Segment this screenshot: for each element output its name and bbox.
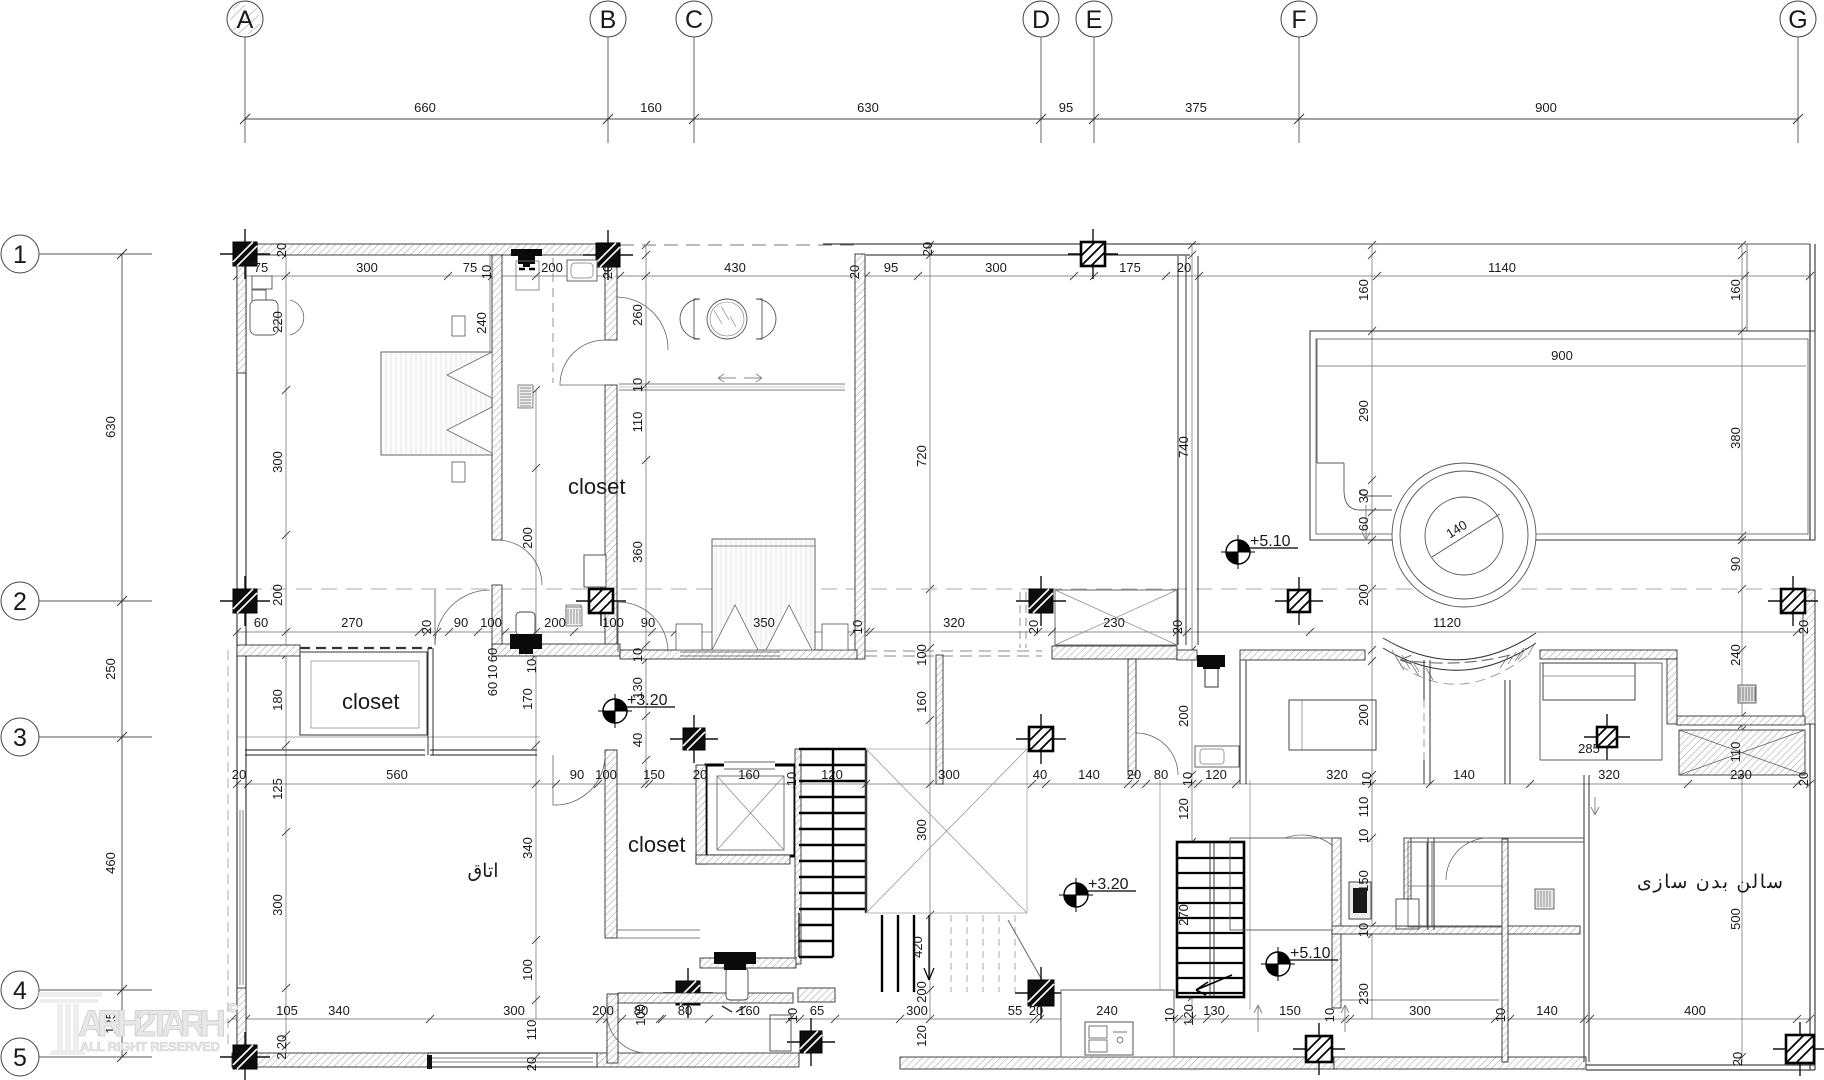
svg-text:300: 300 — [914, 819, 929, 841]
svg-text:130: 130 — [1203, 1003, 1225, 1018]
sink top hall — [567, 260, 597, 281]
gym radiator — [1535, 889, 1554, 909]
svg-text:350: 350 — [753, 615, 775, 630]
svg-text:10: 10 — [485, 665, 500, 679]
stair1 420 arrow — [928, 915, 930, 980]
svg-text:320: 320 — [1598, 767, 1620, 782]
svg-text:150: 150 — [643, 767, 665, 782]
gym top wall right horizontal — [1677, 716, 1805, 725]
closet2 room — [300, 652, 427, 735]
svg-text:120: 120 — [1205, 767, 1227, 782]
svg-text:20: 20 — [1170, 620, 1185, 634]
svg-text:اتاق: اتاق — [467, 861, 498, 882]
svg-text:175: 175 — [1119, 260, 1141, 275]
svg-text:420: 420 — [910, 936, 925, 958]
wc2 wall x1336 — [1332, 838, 1341, 1008]
column B2 — [576, 576, 626, 626]
svg-text:300: 300 — [906, 1003, 928, 1018]
svg-text:460: 460 — [103, 852, 118, 874]
svg-text:80: 80 — [634, 1003, 648, 1018]
elevation marker +5.10 b — [1261, 945, 1338, 981]
svg-text:4: 4 — [13, 977, 27, 1005]
svg-text:10: 10 — [785, 1008, 800, 1022]
svg-text:300: 300 — [270, 451, 285, 473]
wall y750 row3 — [245, 749, 425, 751]
svg-text:20: 20 — [524, 1057, 539, 1071]
svg-text:140: 140 — [1536, 1003, 1558, 1018]
svg-text:220: 220 — [270, 311, 285, 333]
svg-text:F: F — [1291, 6, 1306, 34]
wc top wall right — [1240, 650, 1365, 660]
left wall bottom hatch — [237, 988, 246, 1046]
svg-text:30: 30 — [1356, 489, 1371, 503]
stair1 flight — [799, 749, 866, 957]
svg-text:C: C — [685, 6, 703, 34]
massage bed1 — [1289, 700, 1376, 750]
svg-text:60: 60 — [485, 682, 500, 696]
column B4 — [663, 968, 713, 1018]
svg-text:340: 340 — [520, 837, 535, 859]
shaft bottom wall — [1052, 646, 1177, 659]
svg-text:290: 290 — [1356, 400, 1371, 422]
svg-text:560: 560 — [386, 767, 408, 782]
wall divider x1747 — [1746, 244, 1748, 331]
svg-text:100: 100 — [602, 615, 624, 630]
grid bubble B — [590, 1, 626, 143]
door in bottom wall — [770, 1015, 791, 1051]
svg-text:160: 160 — [738, 767, 760, 782]
svg-text:10: 10 — [850, 620, 865, 634]
svg-text:90: 90 — [641, 615, 655, 630]
svg-text:ALL RIGHT RESERVED: ALL RIGHT RESERVED — [80, 1039, 220, 1054]
svg-text:300: 300 — [938, 767, 960, 782]
gym rooms top wall — [1408, 837, 1584, 839]
svg-text:200: 200 — [544, 615, 566, 630]
door wc mid — [1136, 733, 1178, 775]
svg-text:170: 170 — [520, 688, 535, 710]
svg-text:5: 5 — [13, 1044, 27, 1072]
radiator closet1 — [518, 385, 533, 408]
double door bedroom1 — [435, 590, 490, 645]
svg-text:20: 20 — [693, 767, 707, 782]
svg-text:10: 10 — [1493, 1008, 1508, 1022]
landing wall below stair — [798, 988, 835, 1002]
row bubble 2 — [1, 582, 152, 620]
bed2 room window — [680, 651, 780, 653]
svg-text:E: E — [1086, 6, 1103, 34]
row bubble 5 — [1, 1038, 152, 1076]
spa outer circle — [1392, 463, 1536, 607]
wc bottom toilet — [714, 952, 756, 1012]
down arrow gym — [1591, 797, 1599, 815]
svg-text:60: 60 — [254, 615, 268, 630]
stair2 side lines — [1159, 780, 1161, 1010]
stair1 void X — [866, 749, 1027, 913]
svg-text:1: 1 — [13, 241, 27, 269]
svg-text:380: 380 — [1728, 427, 1743, 449]
svg-text:D: D — [1032, 6, 1050, 34]
svg-text:60: 60 — [1356, 517, 1371, 531]
svg-text:90: 90 — [454, 615, 468, 630]
wc top wall left — [1177, 650, 1197, 660]
wc bottom walls — [618, 993, 793, 1003]
svg-text:1140: 1140 — [1488, 260, 1516, 275]
svg-text:430: 430 — [724, 260, 746, 275]
kitchen counter — [1061, 990, 1174, 1057]
svg-text:200: 200 — [1356, 584, 1371, 606]
window mullion mark — [427, 1055, 432, 1069]
spa diameter line — [1432, 514, 1500, 557]
svg-text:105: 105 — [276, 1003, 298, 1018]
svg-text:10: 10 — [630, 378, 645, 392]
svg-text:65: 65 — [810, 1003, 824, 1018]
svg-text:10: 10 — [630, 648, 645, 662]
svg-text:230: 230 — [1103, 615, 1125, 630]
svg-text:240: 240 — [474, 312, 489, 334]
svg-text:125: 125 — [270, 778, 285, 800]
svg-text:110: 110 — [1356, 797, 1371, 818]
svg-text:©: © — [228, 1000, 238, 1015]
bath1 sink — [566, 555, 606, 625]
gym wing right wall x1586 — [1583, 775, 1585, 1062]
gym top wall L horizontal — [1540, 650, 1677, 659]
stair2 block — [1177, 842, 1244, 997]
svg-text:120: 120 — [914, 1025, 929, 1047]
svg-text:740: 740 — [1176, 436, 1191, 458]
bottom wall segments — [232, 1053, 428, 1067]
column D4 — [1015, 967, 1067, 1019]
row bubble 3 — [1, 718, 152, 756]
recess hatch ticks — [1392, 645, 1534, 672]
property dashed line left — [227, 650, 229, 1050]
grid bubble A — [227, 1, 263, 143]
outer right wall upper — [1809, 244, 1811, 540]
svg-text:160: 160 — [1728, 279, 1743, 301]
svg-text:630: 630 — [103, 416, 118, 438]
grid bubble F — [1281, 1, 1317, 143]
corridor wall y650 seg1 — [237, 645, 300, 656]
wall under bed2 room — [620, 650, 857, 659]
row bubble 4 — [1, 971, 152, 1009]
door closet1 wall — [560, 340, 605, 385]
massage bed2 — [1543, 663, 1635, 700]
svg-text:200: 200 — [541, 260, 563, 275]
closet2 right wall — [427, 648, 429, 755]
door bottom left of wc — [607, 1015, 645, 1053]
column C3 — [670, 715, 718, 763]
wc2 door — [1396, 899, 1419, 929]
svg-text:360: 360 — [630, 541, 645, 563]
sauna room — [1230, 838, 1332, 930]
room walls right wing mid — [1239, 660, 1241, 784]
svg-text:250: 250 — [103, 658, 118, 680]
dashed grid line row2 — [246, 588, 1810, 590]
bench room left wall — [1426, 842, 1428, 927]
elevation marker +5.10 a — [1221, 533, 1298, 569]
wall hall C x861 — [855, 254, 865, 659]
svg-text:260: 260 — [630, 304, 645, 326]
corridor dashed opening D — [865, 650, 1042, 652]
svg-text:400: 400 — [1684, 1003, 1706, 1018]
svg-text:100: 100 — [914, 644, 929, 666]
svg-text:A: A — [237, 6, 254, 34]
svg-text:150: 150 — [1356, 870, 1371, 892]
svg-text:720: 720 — [914, 445, 929, 467]
door bath1 arc — [497, 540, 542, 585]
row bubble 1 — [1, 235, 152, 273]
door room right — [1446, 838, 1488, 880]
massage room2 outline — [1540, 663, 1662, 760]
column D2 — [1016, 576, 1066, 626]
entry arrows — [718, 374, 762, 382]
svg-text:10: 10 — [1162, 1008, 1177, 1022]
svg-text:75: 75 — [254, 260, 268, 275]
svg-text:80: 80 — [1154, 767, 1168, 782]
svg-text:240: 240 — [1728, 644, 1743, 666]
gym top wall L vertical — [1667, 659, 1677, 724]
svg-text:900: 900 — [1551, 348, 1573, 363]
svg-text:240: 240 — [1096, 1003, 1118, 1018]
gym room divider x1503 — [1502, 839, 1508, 1062]
pool step shape — [1317, 339, 1392, 510]
top wall D-E — [823, 243, 1200, 245]
curved recess dashed — [1400, 655, 1528, 684]
curved recess wall — [1383, 643, 1536, 670]
dashed top edge C-D — [620, 244, 857, 246]
wardrobe dashes closet1 — [552, 258, 554, 383]
stair1 left wall hatch — [795, 749, 801, 964]
elevation marker +3.20 a — [598, 692, 675, 728]
svg-text:ARH2TARH: ARH2TARH — [78, 1003, 226, 1044]
svg-text:closet: closet — [568, 474, 625, 499]
svg-text:20: 20 — [232, 767, 246, 782]
svg-text:3: 3 — [13, 724, 27, 752]
svg-text:200: 200 — [914, 981, 929, 1003]
svg-text:110: 110 — [1728, 742, 1743, 763]
svg-text:500: 500 — [1728, 908, 1743, 930]
left wall hatch upper — [237, 265, 246, 373]
svg-text:20: 20 — [274, 1035, 289, 1049]
closet3 inner lines — [617, 929, 700, 931]
svg-text:200: 200 — [1356, 704, 1371, 726]
elevator hatch bottom — [696, 855, 790, 864]
bath1 toilet — [510, 612, 542, 654]
svg-text:160: 160 — [738, 1003, 760, 1018]
top dimension line — [245, 118, 1798, 120]
svg-text:630: 630 — [857, 100, 879, 115]
shower unit — [1349, 882, 1371, 919]
bench room inner — [1408, 842, 1502, 927]
grid bubble C — [676, 1, 712, 143]
svg-text:10: 10 — [1180, 772, 1195, 786]
svg-text:140: 140 — [1078, 767, 1100, 782]
svg-text:2: 2 — [13, 588, 27, 616]
svg-text:110: 110 — [630, 412, 645, 433]
svg-text:160: 160 — [640, 100, 662, 115]
column A1 — [220, 229, 270, 279]
svg-text:660: 660 — [414, 100, 436, 115]
svg-text:140: 140 — [1453, 767, 1475, 782]
column A5 — [220, 1032, 270, 1080]
svg-text:closet: closet — [342, 689, 399, 714]
svg-text:100: 100 — [480, 615, 502, 630]
column F2 — [1275, 577, 1323, 625]
bed2 mid-top — [676, 539, 848, 650]
svg-text:200: 200 — [592, 1003, 614, 1018]
svg-text:150: 150 — [1279, 1003, 1301, 1018]
column A2 — [220, 576, 270, 626]
svg-text:10: 10 — [784, 772, 799, 786]
svg-text:300: 300 — [985, 260, 1007, 275]
svg-text:120: 120 — [1176, 798, 1191, 820]
wall E triple x1188 — [1177, 256, 1179, 645]
svg-text:160: 160 — [914, 691, 929, 713]
toilet top wall — [511, 249, 542, 290]
column D3 — [1016, 714, 1066, 764]
svg-text:900: 900 — [1535, 100, 1557, 115]
svg-text:200: 200 — [1176, 705, 1191, 727]
svg-text:20: 20 — [1796, 620, 1811, 634]
outer right wall lower — [1809, 724, 1811, 1070]
svg-text:120: 120 — [821, 767, 843, 782]
bed1 top-left — [381, 316, 492, 482]
elevation marker +3.20 b — [1059, 876, 1136, 912]
wc vertical wall x1132 — [1128, 659, 1136, 775]
svg-text:110: 110 — [524, 1020, 539, 1041]
svg-text:230: 230 — [1730, 767, 1752, 782]
wc mid vanity — [1195, 746, 1239, 767]
svg-text:300: 300 — [503, 1003, 525, 1018]
wall closet1 right x613 — [605, 245, 617, 340]
room divider x1424 — [1423, 660, 1425, 784]
svg-text:320: 320 — [1326, 767, 1348, 782]
top wall A-B — [246, 244, 620, 255]
wall bedroom1 right x495 — [492, 255, 502, 540]
corridor wall y650 seg2 — [492, 644, 620, 656]
svg-text:40: 40 — [630, 733, 645, 747]
svg-text:20: 20 — [1026, 620, 1041, 634]
bottom wall window band — [428, 1052, 597, 1054]
desk chair top-left — [250, 276, 304, 335]
svg-text:75: 75 — [463, 260, 477, 275]
door bedroom3 top — [617, 602, 619, 652]
svg-text:20: 20 — [1127, 767, 1141, 782]
outer right wall hatch — [1803, 590, 1815, 724]
svg-text:100: 100 — [595, 767, 617, 782]
recess arrow — [1400, 655, 1510, 664]
sauna door arc — [1285, 835, 1332, 845]
svg-text:95: 95 — [1059, 100, 1073, 115]
X block right — [1679, 730, 1805, 775]
svg-text:90: 90 — [1728, 557, 1743, 571]
svg-text:20: 20 — [1796, 772, 1811, 786]
svg-text:320: 320 — [943, 615, 965, 630]
left wall window — [239, 810, 241, 985]
svg-text:10: 10 — [1322, 1008, 1337, 1022]
corridor wall dashed closet2 — [300, 647, 432, 649]
svg-text:230: 230 — [1356, 983, 1371, 1005]
svg-text:10: 10 — [1356, 923, 1371, 937]
outer left wall — [236, 244, 238, 1068]
svg-text:300: 300 — [1409, 1003, 1431, 1018]
stair hall left wall — [936, 655, 943, 784]
svg-text:1120: 1120 — [1433, 615, 1461, 630]
svg-text:270: 270 — [1176, 904, 1191, 926]
wc2 wall y930 — [1332, 926, 1580, 934]
svg-text:55: 55 — [1008, 1003, 1022, 1018]
chain tick marks — [228, 241, 1814, 1066]
radiator mid — [1738, 685, 1756, 703]
elevator shaft — [706, 765, 795, 856]
opening dashes at D — [1019, 592, 1021, 648]
svg-text:20: 20 — [274, 243, 289, 257]
pool outer wall — [1310, 331, 1815, 540]
column G5 — [1773, 1022, 1824, 1076]
radiator hall mid — [566, 607, 582, 626]
svg-text:160: 160 — [1356, 279, 1371, 301]
door hall top right — [617, 297, 668, 350]
svg-text:340: 340 — [328, 1003, 350, 1018]
round table and chairs — [680, 299, 776, 339]
svg-text:90: 90 — [570, 767, 584, 782]
row3 grid line left — [237, 736, 540, 738]
svg-text:10: 10 — [1359, 772, 1374, 786]
svg-text:200: 200 — [270, 584, 285, 606]
left dimension line — [121, 254, 123, 1057]
svg-text:closet: closet — [628, 832, 685, 857]
column F5 — [1293, 1023, 1345, 1075]
column E1 — [1068, 229, 1118, 279]
column B1 — [583, 230, 633, 280]
svg-text:300: 300 — [270, 894, 285, 916]
spa inner circle — [1425, 497, 1503, 575]
svg-text:2: 2 — [274, 1052, 289, 1059]
pool inner line — [1316, 339, 1808, 534]
top edge E-G solid — [1194, 243, 1810, 245]
svg-text:60: 60 — [485, 648, 500, 662]
svg-text:G: G — [1788, 6, 1807, 34]
svg-text:20: 20 — [847, 265, 862, 279]
svg-text:40: 40 — [1033, 767, 1047, 782]
svg-text:20: 20 — [1177, 260, 1191, 275]
svg-text:375: 375 — [1185, 100, 1207, 115]
bottom wall right thin — [1586, 1064, 1815, 1066]
svg-text:20: 20 — [920, 242, 935, 256]
column G2 — [1768, 576, 1818, 626]
grid bubble D — [1023, 1, 1059, 143]
shaft box with X — [1055, 590, 1177, 645]
svg-text:285: 285 — [1578, 741, 1600, 756]
column B5 — [787, 1018, 835, 1066]
svg-text:200: 200 — [520, 527, 535, 549]
svg-text:10: 10 — [1356, 829, 1371, 843]
svg-text:B: B — [600, 6, 617, 34]
grid bubble E — [1076, 1, 1112, 143]
column FG3 — [1584, 714, 1630, 760]
room divider x1507 — [1504, 680, 1506, 784]
svg-text:130: 130 — [630, 677, 645, 699]
svg-text:20: 20 — [1730, 1052, 1745, 1066]
svg-text:20: 20 — [600, 265, 615, 279]
wc2 wall x1408 — [1404, 838, 1411, 899]
svg-text:10: 10 — [524, 659, 539, 673]
closet3 wall x610 — [605, 750, 617, 938]
watermark logo column glyph — [36, 992, 102, 1055]
down arrows right rooms — [1362, 505, 1370, 540]
door bedroom3 — [553, 755, 605, 805]
wc mid toilet black — [1197, 655, 1225, 687]
entry window band — [619, 383, 845, 385]
